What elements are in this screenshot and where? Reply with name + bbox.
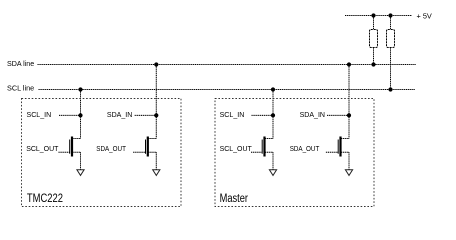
svg-text:TMC222: TMC222 (27, 193, 63, 205)
svg-text:SDA_OUT: SDA_OUT (96, 144, 126, 153)
svg-text:SCL_IN: SCL_IN (220, 110, 245, 119)
svg-text:SDA_IN: SDA_IN (107, 110, 132, 119)
svg-text:SDA line: SDA line (7, 59, 34, 68)
svg-text:SDA_IN: SDA_IN (300, 110, 325, 119)
svg-text:SDA_OUT: SDA_OUT (290, 144, 320, 153)
svg-text:SCL line: SCL line (7, 84, 34, 93)
svg-text:SCL_IN: SCL_IN (27, 110, 52, 119)
svg-text:SCL_OUT: SCL_OUT (220, 144, 253, 153)
svg-text:Master: Master (220, 193, 249, 205)
svg-text:+ 5V: + 5V (417, 11, 432, 20)
svg-text:SCL_OUT: SCL_OUT (26, 144, 59, 153)
